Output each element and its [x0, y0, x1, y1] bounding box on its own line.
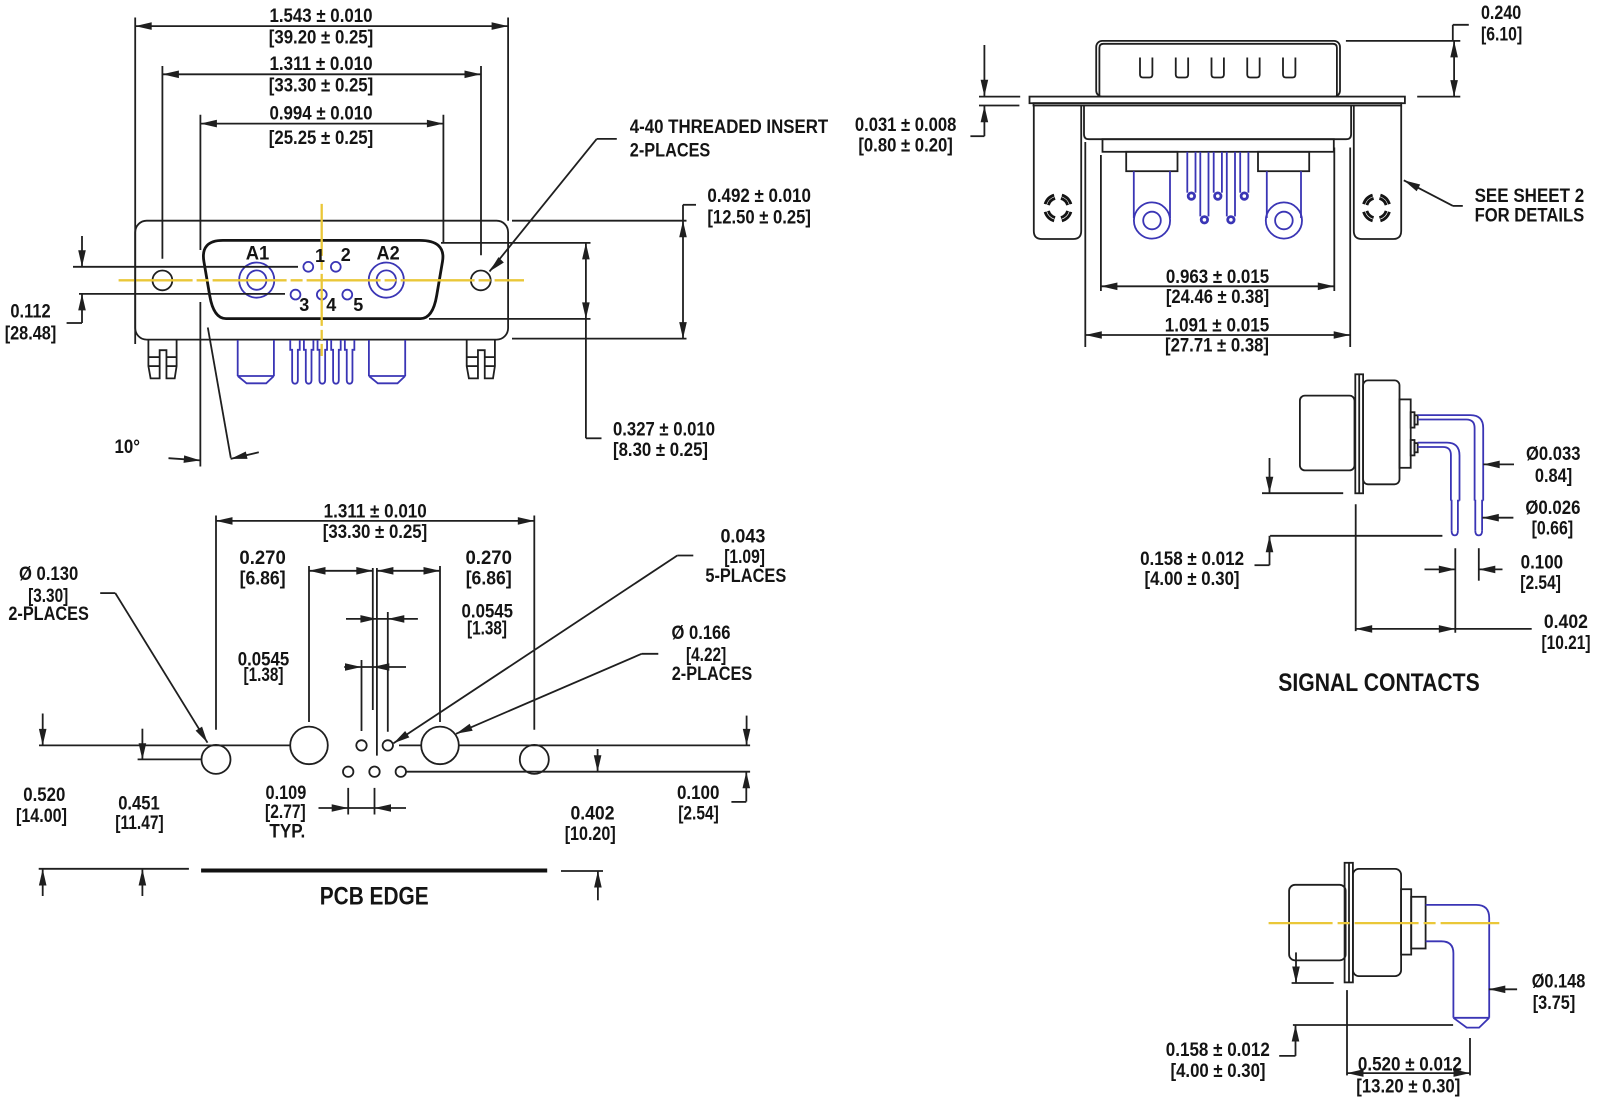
svg-text:0.112: 0.112: [10, 301, 50, 323]
svg-text:0.520 ± 0.012: 0.520 ± 0.012: [1358, 1053, 1462, 1075]
svg-text:1.311 ± 0.010: 1.311 ± 0.010: [269, 53, 372, 75]
svg-text:[1.38]: [1.38]: [244, 664, 284, 686]
svg-text:4-40 THREADED INSERT: 4-40 THREADED INSERT: [630, 116, 828, 138]
svg-text:0.031 ± 0.008: 0.031 ± 0.008: [855, 114, 957, 136]
svg-text:0.100: 0.100: [1521, 551, 1564, 573]
svg-text:1.311 ± 0.010: 1.311 ± 0.010: [324, 501, 427, 523]
svg-text:[27.71 ± 0.38]: [27.71 ± 0.38]: [1165, 335, 1269, 357]
svg-text:3: 3: [299, 295, 309, 315]
svg-text:SIGNAL CONTACTS: SIGNAL CONTACTS: [1278, 669, 1479, 697]
svg-text:0.240: 0.240: [1481, 2, 1521, 24]
svg-text:2-PLACES: 2-PLACES: [630, 140, 711, 162]
svg-text:[8.30 ± 0.25]: [8.30 ± 0.25]: [613, 439, 708, 461]
svg-text:0.327 ± 0.010: 0.327 ± 0.010: [613, 419, 715, 441]
svg-text:[39.20 ± 0.25]: [39.20 ± 0.25]: [269, 26, 374, 48]
svg-text:2-PLACES: 2-PLACES: [672, 663, 753, 685]
svg-text:[2.54]: [2.54]: [1520, 572, 1561, 594]
svg-text:0.158 ± 0.012: 0.158 ± 0.012: [1166, 1039, 1270, 1061]
svg-text:5: 5: [353, 295, 363, 315]
svg-text:Ø0.033: Ø0.033: [1526, 443, 1581, 465]
svg-text:4: 4: [326, 295, 336, 315]
svg-text:A2: A2: [377, 243, 400, 265]
svg-text:0.963 ± 0.015: 0.963 ± 0.015: [1166, 266, 1269, 288]
svg-text:Ø 0.166: Ø 0.166: [672, 622, 731, 644]
svg-text:TYP.: TYP.: [269, 821, 305, 843]
svg-text:1.091 ± 0.015: 1.091 ± 0.015: [1165, 314, 1270, 336]
svg-text:2: 2: [341, 245, 351, 265]
svg-text:[0.66]: [0.66]: [1532, 517, 1574, 539]
svg-text:[12.50 ± 0.25]: [12.50 ± 0.25]: [707, 207, 811, 229]
svg-text:[14.00]: [14.00]: [16, 805, 67, 827]
svg-text:Ø0.148: Ø0.148: [1532, 971, 1586, 993]
svg-text:[25.25 ± 0.25]: [25.25 ± 0.25]: [269, 127, 374, 149]
svg-text:[6.86]: [6.86]: [466, 568, 512, 590]
svg-text:SEE SHEET 2: SEE SHEET 2: [1475, 185, 1585, 207]
svg-text:[10.21]: [10.21]: [1542, 632, 1591, 654]
svg-text:0.100: 0.100: [677, 782, 720, 804]
svg-text:FOR DETAILS: FOR DETAILS: [1475, 205, 1585, 227]
svg-text:[28.48]: [28.48]: [5, 323, 57, 345]
svg-text:[3.75]: [3.75]: [1533, 992, 1576, 1014]
svg-text:0.994 ± 0.010: 0.994 ± 0.010: [269, 102, 372, 124]
svg-text:10°: 10°: [115, 436, 141, 458]
svg-text:A1: A1: [246, 243, 270, 265]
svg-text:2-PLACES: 2-PLACES: [8, 603, 89, 625]
svg-text:[0.80 ± 0.20]: [0.80 ± 0.20]: [858, 134, 953, 156]
svg-text:1: 1: [315, 246, 325, 266]
svg-text:[10.20]: [10.20]: [565, 823, 616, 845]
svg-text:0.270: 0.270: [466, 547, 513, 569]
svg-text:1.543 ± 0.010: 1.543 ± 0.010: [269, 5, 372, 27]
svg-text:[4.00 ± 0.30]: [4.00 ± 0.30]: [1171, 1060, 1266, 1082]
svg-text:0.520: 0.520: [23, 784, 65, 806]
svg-text:0.402: 0.402: [1544, 611, 1588, 633]
svg-text:0.402: 0.402: [571, 802, 615, 824]
svg-text:[6.86]: [6.86]: [240, 568, 286, 590]
svg-text:Ø 0.130: Ø 0.130: [19, 563, 78, 585]
svg-text:[4.00 ± 0.30]: [4.00 ± 0.30]: [1145, 568, 1240, 590]
svg-text:[6.10]: [6.10]: [1481, 23, 1522, 45]
svg-text:[24.46 ± 0.38]: [24.46 ± 0.38]: [1166, 286, 1269, 308]
svg-text:[33.30 ± 0.25]: [33.30 ± 0.25]: [269, 74, 374, 96]
svg-text:[13.20 ± 0.30]: [13.20 ± 0.30]: [1356, 1076, 1460, 1098]
svg-text:0.492 ± 0.010: 0.492 ± 0.010: [707, 185, 811, 207]
svg-text:0.043: 0.043: [720, 526, 765, 548]
svg-text:[11.47]: [11.47]: [115, 812, 163, 834]
svg-text:Ø0.026: Ø0.026: [1525, 497, 1580, 519]
svg-text:0.270: 0.270: [239, 547, 286, 569]
svg-text:[33.30 ± 0.25]: [33.30 ± 0.25]: [323, 521, 428, 543]
svg-text:0.158 ± 0.012: 0.158 ± 0.012: [1140, 548, 1244, 570]
svg-text:[1.38]: [1.38]: [467, 618, 507, 640]
svg-text:5-PLACES: 5-PLACES: [705, 565, 786, 587]
svg-text:[2.54]: [2.54]: [678, 802, 719, 824]
svg-text:0.84]: 0.84]: [1535, 465, 1572, 487]
svg-text:PCB EDGE: PCB EDGE: [320, 883, 429, 911]
